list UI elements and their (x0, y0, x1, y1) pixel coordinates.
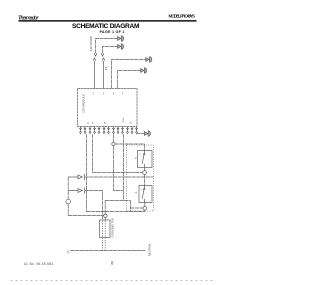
wire ladder to relay RY2 terminal (130, 207, 143, 209)
svg-text:DSI MODULE: DSI MODULE (81, 94, 85, 113)
control module box U1 (78, 89, 138, 127)
quick connector J1 (68, 174, 84, 180)
svg-text:PAGE 1 OF 1: PAGE 1 OF 1 (100, 30, 125, 34)
perforation dotted line (11, 280, 216, 282)
connector C5 (144, 131, 150, 137)
riser wire to connector C3 (112, 60, 146, 89)
pin arrow down A1 (94, 53, 97, 56)
svg-text:NEUTRAL: NEUTRAL (147, 243, 151, 256)
wire from last pin to connector C5 (137, 133, 145, 135)
wire node to relay RY1 coil (115, 144, 144, 151)
wire left drop (67, 177, 69, 216)
pin header row below module (80, 127, 138, 135)
relay RY2 terminal circle (143, 206, 147, 210)
relay enclosure (dashed) (127, 145, 154, 211)
svg-text:GND: GND (123, 117, 125, 122)
svg-text:24V SPARK: 24V SPARK (89, 36, 93, 51)
wire W-D vertical (123, 134, 125, 200)
cooking top pass wire 2 (104, 221, 106, 251)
svg-text:MODEL PRO48YS: MODEL PRO48YS (169, 13, 196, 18)
svg-text:P1: P1 (104, 66, 108, 70)
pin arrow down A2 (101, 53, 104, 56)
relay RY2 box (139, 186, 152, 203)
cooking top connector box (100, 220, 111, 238)
wire H3 cooking link (105, 199, 130, 201)
svg-text:SCHEMATIC DIAGRAM: SCHEMATIC DIAGRAM (72, 23, 140, 30)
relay RY1 box (138, 151, 153, 168)
connector C4 (141, 68, 147, 74)
connector C2 (118, 44, 124, 50)
wire H1 to relay RY1 (93, 172, 143, 174)
svg-text:L1: L1 (66, 250, 70, 254)
wire from J2 to cooking top (85, 191, 103, 221)
mating pin arrow up B1 (93, 58, 96, 89)
riser wire to connector C4 (118, 71, 141, 89)
wire W-C lower (114, 146, 124, 191)
svg-text:UL No. 96-45-684: UL No. 96-45-684 (24, 262, 53, 266)
wire lower bus (87, 210, 146, 212)
bottom supply bus (71, 250, 146, 252)
wire W-B vertical (92, 134, 94, 172)
wire RY1 to RY2 (144, 168, 146, 186)
svg-text:COOKING TOP: COOKING TOP (111, 218, 115, 238)
wire RY2 stub (144, 203, 146, 207)
relay RY1 switch (142, 151, 145, 168)
relay RY2 switch (142, 186, 145, 203)
node N2 (104, 214, 107, 217)
wire W-C vertical to node (113, 134, 115, 142)
svg-text:M: M (135, 193, 137, 195)
node N1 (112, 142, 115, 145)
connector C1 (118, 36, 124, 42)
connector C3 (146, 57, 152, 63)
wire to connector C2 (103, 47, 118, 54)
header rule (19, 20, 197, 22)
wire to connector C1 (96, 39, 118, 54)
relay RY1 terminal circle (143, 171, 147, 175)
motor/junction circle M1 (66, 199, 71, 204)
wire W-A long vertical (86, 134, 88, 211)
wire ladder vertical (129, 200, 131, 211)
wire H2 from J1 to right (85, 176, 154, 178)
wire cooking vertical upper (104, 200, 106, 214)
wire left to cooktop node (68, 215, 104, 217)
quick connector J2 (68, 188, 84, 194)
mating pin arrow up B2 (102, 58, 105, 89)
cooking top pass wire 1 (102, 221, 104, 251)
svg-text:M: M (135, 158, 137, 160)
wire node to box (104, 218, 106, 220)
